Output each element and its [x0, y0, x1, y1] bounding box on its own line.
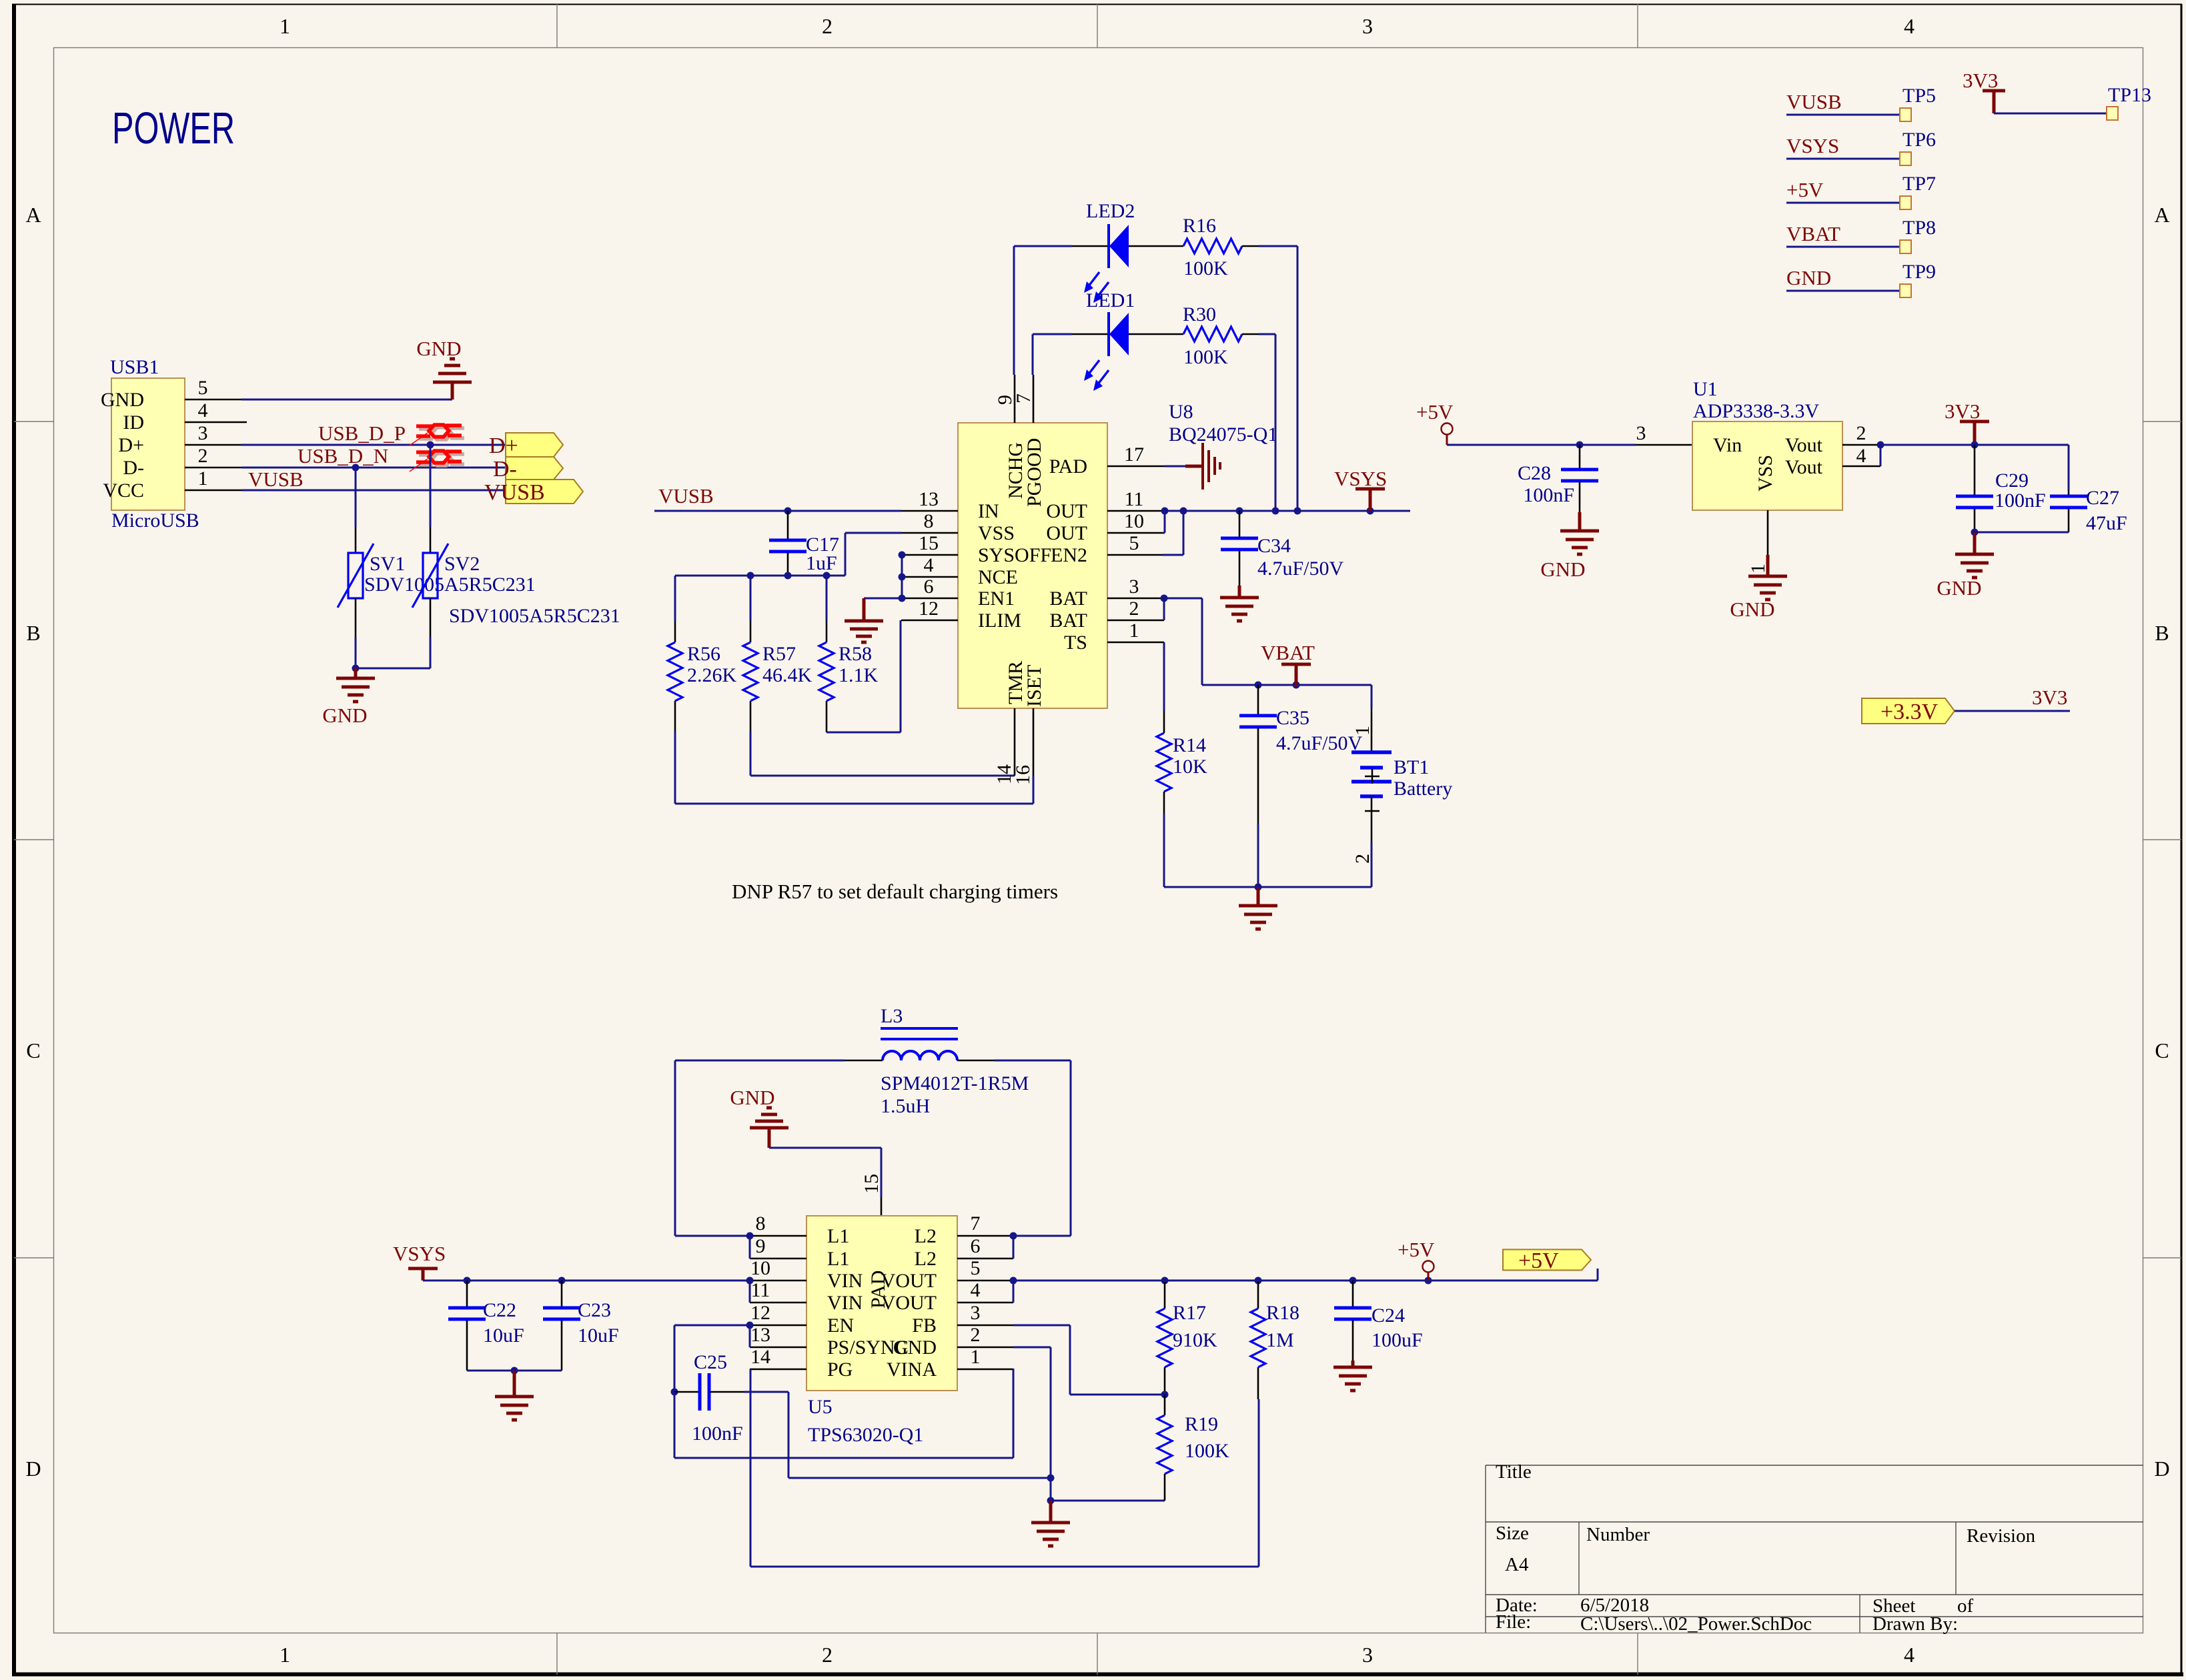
U1 pin 1 stub down	[1767, 510, 1769, 555]
U8 top pin 9 stub	[1014, 375, 1016, 423]
U5 left pin stubs	[750, 1235, 806, 1237]
svg-text:R18: R18	[1266, 1302, 1299, 1324]
svg-text:3V3: 3V3	[2032, 686, 2067, 709]
ground at U8 EN1 chain	[901, 555, 903, 598]
svg-text:3: 3	[1362, 14, 1373, 38]
svg-text:VUSB: VUSB	[658, 484, 714, 508]
wire +5V to U1 Vin	[1447, 444, 1636, 446]
svg-text:GND: GND	[1540, 558, 1585, 581]
svg-text:3: 3	[1129, 576, 1139, 598]
svg-text:1: 1	[971, 1346, 981, 1368]
svg-text:1: 1	[1129, 620, 1139, 642]
resistor R30	[1183, 327, 1242, 341]
junction R30 at rail	[1272, 508, 1279, 515]
resistor R58	[826, 576, 828, 621]
wire 3V3 to TP13	[1994, 113, 2107, 115]
svg-text:5: 5	[198, 377, 208, 399]
capacitor C27	[2068, 445, 2070, 490]
power port VSYS bottom	[408, 1269, 438, 1281]
BT1 pin stubs	[1371, 796, 1373, 842]
wire NCHG riser to LED2	[1013, 246, 1015, 375]
svg-text:C27: C27	[2086, 487, 2119, 509]
LED LED2	[1014, 245, 1072, 247]
USB1 pin 5 stub	[185, 399, 241, 401]
port flag VUSB	[506, 480, 583, 504]
wire R58 to ILIM	[827, 732, 901, 734]
svg-text:VINA: VINA	[887, 1359, 937, 1381]
svg-text:+5V: +5V	[1786, 178, 1824, 201]
capacitor C25	[674, 1391, 700, 1393]
svg-text:4: 4	[1904, 1643, 1915, 1667]
junction C35 top	[1255, 682, 1262, 689]
svg-text:OUT: OUT	[1046, 500, 1087, 522]
wire gnd to U5 pin15	[768, 1128, 771, 1148]
wire C22/C23 gnd rail	[467, 1370, 562, 1372]
wire D+ down to SV2	[430, 445, 432, 527]
svg-text:D-: D-	[123, 457, 144, 479]
svg-text:B: B	[2155, 621, 2169, 645]
L3 pin stubs	[845, 1060, 883, 1062]
resistor R14	[1163, 711, 1165, 733]
svg-text:R56: R56	[687, 643, 720, 665]
varistor SV2	[430, 527, 432, 553]
U1 pin 2 stub	[1842, 444, 1880, 446]
svg-text:A: A	[2154, 203, 2169, 227]
wire D- down to SV1	[355, 468, 357, 527]
junction gnd/C25	[1047, 1475, 1055, 1482]
svg-text:2.26K: 2.26K	[687, 664, 737, 686]
U8 right pin stubs	[1107, 466, 1165, 468]
svg-text:2: 2	[822, 14, 833, 38]
USB1 pin 1 stub	[185, 490, 241, 492]
svg-text:U1: U1	[1693, 378, 1718, 400]
svg-text:5: 5	[1129, 532, 1139, 554]
sheet outer border	[12, 4, 2182, 5]
svg-text:of: of	[1957, 1595, 1974, 1617]
svg-text:R57: R57	[762, 643, 796, 665]
wire VSYS rail bottom	[423, 1280, 750, 1282]
svg-text:C28: C28	[1518, 462, 1551, 484]
svg-text:D: D	[2154, 1457, 2169, 1481]
USB1 pin 4 stub (ID, n/c)	[185, 422, 247, 424]
svg-text:PGOOD: PGOOD	[1023, 438, 1045, 507]
junction C22	[464, 1277, 471, 1285]
svg-text:R17: R17	[1173, 1302, 1206, 1324]
junction R57 top	[747, 572, 754, 580]
power port +5V (circle)	[1442, 424, 1453, 435]
svg-text:TS: TS	[1064, 632, 1087, 654]
svg-text:POWER: POWER	[112, 103, 235, 153]
junction C23	[558, 1277, 566, 1285]
IC U1 body	[1692, 422, 1842, 510]
svg-text:15: 15	[861, 1174, 883, 1194]
svg-text:C24: C24	[1372, 1305, 1405, 1327]
junction D- to SV1	[352, 464, 360, 472]
junction R17 top	[1161, 1277, 1169, 1285]
capacitor C29	[1974, 445, 1976, 495]
zone dividers	[556, 4, 558, 47]
junction VIN pin10	[746, 1277, 754, 1285]
svg-text:IN: IN	[978, 500, 999, 522]
svg-text:4: 4	[924, 554, 934, 576]
junction VUSB/C17	[784, 508, 792, 515]
svg-text:17: 17	[1124, 444, 1144, 466]
U8 top pin 7 stub	[1033, 375, 1035, 423]
svg-text:VSYS: VSYS	[1786, 134, 1839, 157]
resistor R18	[1257, 1282, 1259, 1309]
svg-text:D: D	[25, 1457, 41, 1481]
U5 right pin stubs	[957, 1235, 1013, 1237]
svg-text:10K: 10K	[1173, 756, 1207, 778]
svg-text:6: 6	[971, 1235, 981, 1257]
wire BAT tie pin2	[1163, 598, 1165, 620]
svg-text:U8: U8	[1169, 401, 1193, 423]
wire EN pin13 tie	[749, 1325, 751, 1347]
power port 3V3 top right	[1983, 91, 2005, 113]
wire pin4 tie	[1880, 445, 1882, 466]
svg-text:1: 1	[198, 468, 208, 490]
svg-text:3: 3	[971, 1302, 981, 1324]
svg-text:ID: ID	[123, 411, 144, 434]
svg-text:L1: L1	[827, 1248, 849, 1270]
svg-text:D-: D-	[493, 457, 517, 482]
wire R14 to battery gnd rail	[1163, 814, 1165, 887]
svg-text:4.7uF/50V: 4.7uF/50V	[1257, 558, 1344, 580]
wire L1 net to L3	[675, 1060, 845, 1062]
U8 bottom pin 14 stub	[1014, 708, 1016, 776]
svg-text:D+: D+	[489, 434, 518, 458]
svg-text:L1: L1	[827, 1225, 849, 1247]
resistor R57	[750, 576, 752, 621]
battery BT1	[1371, 685, 1373, 708]
svg-text:100K: 100K	[1183, 346, 1228, 368]
ground under C29	[1955, 532, 1994, 578]
svg-text:3: 3	[1362, 1643, 1373, 1667]
port flag D+	[506, 433, 563, 457]
wire OUT pin10 tie	[1163, 532, 1165, 534]
svg-text:L2: L2	[915, 1248, 937, 1270]
svg-text:GND: GND	[1937, 576, 1981, 600]
svg-text:4: 4	[1856, 445, 1866, 467]
svg-text:B: B	[26, 621, 40, 645]
svg-text:VBAT: VBAT	[1261, 641, 1315, 664]
svg-text:C35: C35	[1276, 707, 1309, 729]
svg-text:OUT: OUT	[1046, 522, 1087, 544]
svg-text:GND: GND	[1786, 266, 1831, 289]
svg-text:VCC: VCC	[103, 480, 144, 502]
svg-text:VSYS: VSYS	[393, 1242, 446, 1265]
connector USB1 body	[111, 378, 185, 510]
wire pin16 to ISET rail	[1033, 776, 1035, 804]
svg-text:TP7: TP7	[1902, 173, 1936, 195]
LED LED1	[1033, 333, 1072, 335]
junction +5V port bottom	[1425, 1277, 1432, 1285]
wire battery gnd rail	[1164, 886, 1372, 888]
junction C29 top	[1971, 442, 1979, 449]
port flag +5V	[1503, 1250, 1591, 1271]
wire gnd to R19 bottom	[1051, 1500, 1165, 1502]
svg-text:11: 11	[1125, 488, 1144, 510]
svg-text:11: 11	[751, 1279, 770, 1301]
svg-text:L3: L3	[881, 1005, 903, 1027]
capacitor C23	[561, 1281, 563, 1307]
svg-text:1: 1	[1351, 726, 1374, 736]
svg-text:9: 9	[756, 1235, 766, 1257]
svg-text:BAT: BAT	[1049, 610, 1087, 632]
svg-text:C34: C34	[1257, 535, 1291, 557]
junction VSYS power	[1367, 508, 1374, 515]
ground under C22/C23	[495, 1371, 534, 1420]
power port 3V3 at U1	[1960, 422, 1989, 445]
svg-text:15: 15	[919, 532, 939, 554]
resistor R19	[1164, 1395, 1166, 1415]
wire EN net down to VINA rail	[674, 1392, 676, 1458]
svg-text:USB_D_P: USB_D_P	[318, 422, 406, 445]
junction C29 bottom	[1971, 529, 1979, 536]
wire VSS bus to resistors (y=863)	[675, 575, 845, 577]
ground above U5 (inverted)	[750, 1108, 788, 1128]
wire SV2 bottom to ground rail	[430, 637, 432, 668]
svg-text:R16: R16	[1183, 215, 1216, 237]
svg-text:16: 16	[1012, 765, 1034, 785]
svg-text:PAD: PAD	[867, 1271, 889, 1309]
svg-text:2: 2	[822, 1643, 833, 1667]
wire EN1 to gnd	[864, 598, 902, 600]
svg-text:SPM4012T-1R5M: SPM4012T-1R5M	[881, 1072, 1029, 1094]
ground under C28	[1560, 512, 1599, 554]
svg-text:1: 1	[280, 1643, 290, 1667]
wire bus to R56	[674, 576, 676, 621]
svg-text:TP13: TP13	[2108, 84, 2151, 106]
svg-text:C25: C25	[694, 1351, 727, 1373]
svg-text:MicroUSB: MicroUSB	[111, 510, 199, 532]
svg-text:SYSOFF: SYSOFF	[978, 544, 1051, 566]
wire GND pin2 down	[1013, 1347, 1051, 1349]
svg-text:EN: EN	[827, 1315, 854, 1337]
svg-text:BQ24075-Q1: BQ24075-Q1	[1169, 424, 1277, 446]
svg-text:4: 4	[198, 399, 208, 422]
svg-text:+5V: +5V	[1398, 1238, 1435, 1261]
svg-text:100K: 100K	[1183, 257, 1228, 279]
svg-text:Number: Number	[1586, 1524, 1650, 1545]
svg-text:+5V: +5V	[1518, 1248, 1559, 1273]
svg-text:2: 2	[1856, 422, 1866, 444]
svg-text:Title: Title	[1496, 1461, 1532, 1483]
wire SV ground rail	[356, 668, 430, 670]
wire +5V rail bottom	[1013, 1280, 1598, 1282]
svg-text:4.7uF/50V: 4.7uF/50V	[1276, 732, 1363, 754]
junction BAT pin3	[1161, 595, 1168, 602]
svg-text:Drawn By:: Drawn By:	[1872, 1613, 1958, 1635]
capacitor C35	[1257, 685, 1259, 714]
ground under battery rail	[1239, 887, 1277, 929]
wire +5V flag connector	[1597, 1269, 1599, 1281]
junction C24 top	[1349, 1277, 1357, 1285]
U8 bottom pin 16 stub	[1033, 708, 1035, 777]
U1 pin 4 stub	[1842, 466, 1880, 468]
junction caps gnd	[511, 1367, 518, 1375]
wire L1 pin9 tie	[749, 1236, 751, 1258]
svg-text:GND: GND	[893, 1337, 937, 1359]
svg-text:A4: A4	[1505, 1554, 1529, 1575]
wire PG down	[750, 1369, 752, 1567]
svg-text:1.1K: 1.1K	[839, 664, 879, 686]
capacitor C24	[1352, 1281, 1354, 1307]
wire EN2 tie	[1163, 554, 1183, 556]
junction C34	[1236, 508, 1243, 515]
svg-text:14: 14	[750, 1346, 770, 1368]
svg-text:100K: 100K	[1185, 1440, 1229, 1462]
svg-text:7: 7	[971, 1212, 981, 1234]
wire USB_D_N net	[241, 467, 506, 469]
svg-text:GND: GND	[101, 389, 144, 411]
svg-text:910K: 910K	[1173, 1329, 1217, 1351]
wire VIN pin11 tie	[749, 1281, 751, 1303]
svg-text:13: 13	[750, 1324, 770, 1346]
svg-text:10uF: 10uF	[483, 1325, 524, 1347]
svg-text:VOUT: VOUT	[881, 1270, 937, 1292]
junction L1 pin8	[746, 1232, 754, 1240]
svg-text:TP6: TP6	[1902, 129, 1936, 151]
junction EN1	[899, 595, 906, 602]
inductor L3	[881, 1028, 958, 1060]
svg-text:DNP R57 to set default chargin: DNP R57 to set default charging timers	[732, 880, 1058, 903]
svg-text:3V3: 3V3	[1963, 69, 1998, 92]
svg-text:Revision: Revision	[1967, 1525, 2036, 1547]
ground under C24	[1333, 1361, 1372, 1391]
svg-text:VSYS: VSYS	[1334, 467, 1387, 490]
svg-text:ISET: ISET	[1023, 665, 1045, 707]
test point TP13	[2107, 107, 2118, 120]
svg-text:1uF: 1uF	[806, 552, 837, 574]
svg-text:100nF: 100nF	[1995, 490, 2046, 512]
U1 pin 3 stub	[1636, 444, 1692, 446]
junction C28	[1576, 442, 1584, 449]
junction gnd/R19 rail	[1047, 1497, 1055, 1505]
U8 left pin stubs	[901, 510, 958, 512]
capacitor C22	[466, 1281, 468, 1307]
junction R17/R19/FB	[1161, 1391, 1169, 1399]
wire VBAT rail	[1202, 684, 1372, 686]
svg-text:1: 1	[1747, 564, 1769, 574]
svg-text:1.5uH: 1.5uH	[881, 1095, 930, 1117]
wire FB net	[1013, 1325, 1070, 1327]
wire VUSB from USB1 pin1	[241, 490, 506, 492]
svg-text:GND: GND	[1730, 598, 1774, 621]
svg-text:SDV1005A5R5C231: SDV1005A5R5C231	[449, 605, 620, 627]
svg-text:PG: PG	[827, 1359, 853, 1381]
svg-text:C: C	[2155, 1038, 2169, 1062]
svg-text:Vout: Vout	[1785, 456, 1823, 478]
wire L2 pin6 tie	[1013, 1236, 1015, 1258]
svg-text:R14: R14	[1173, 734, 1206, 756]
svg-text:VBAT: VBAT	[1786, 222, 1840, 245]
capacitor C28	[1579, 445, 1581, 468]
wire R57 to TMR	[750, 732, 752, 776]
svg-text:10: 10	[1124, 510, 1144, 532]
svg-text:PAD: PAD	[1049, 456, 1087, 478]
power port +5V bottom (circle)	[1423, 1261, 1434, 1273]
port flag D-	[506, 457, 563, 480]
varistor SV1	[355, 527, 357, 553]
svg-text:BT1: BT1	[1394, 756, 1429, 778]
junction VBAT power	[1293, 682, 1300, 689]
svg-text:SDV1005A5R5C231: SDV1005A5R5C231	[364, 574, 536, 596]
svg-text:FB: FB	[912, 1315, 937, 1337]
svg-text:USB_D_N: USB_D_N	[298, 444, 388, 468]
junction D+ to SV2	[427, 442, 434, 449]
svg-text:SV2: SV2	[444, 553, 480, 575]
wire VUSB to U8 pin13	[654, 510, 901, 512]
ground at U8 pin17 (sideways)	[1165, 466, 1185, 468]
svg-text:100uF: 100uF	[1372, 1329, 1423, 1351]
svg-text:2: 2	[971, 1324, 981, 1346]
svg-text:VOUT: VOUT	[881, 1292, 937, 1314]
wire VOUT pin4 tie	[1013, 1281, 1015, 1303]
wire R16 to VSYS rail	[1259, 245, 1297, 247]
IC U5 body	[806, 1216, 957, 1391]
junction OUT pin11	[1161, 508, 1169, 515]
wire L2 net to L3	[995, 1060, 1071, 1062]
svg-text:Vin: Vin	[1713, 434, 1742, 456]
wire VSS bus riser	[845, 533, 847, 576]
junction R58 top	[823, 572, 831, 580]
svg-text:SV1: SV1	[370, 553, 405, 575]
svg-text:TP8: TP8	[1902, 217, 1936, 239]
svg-text:46.4K: 46.4K	[762, 664, 812, 686]
svg-text:C: C	[26, 1038, 40, 1062]
ground under U1	[1748, 555, 1787, 600]
svg-text:13: 13	[919, 488, 939, 510]
svg-text:VSS: VSS	[978, 522, 1015, 544]
svg-text:5: 5	[971, 1257, 981, 1279]
junction U1 out	[1877, 442, 1884, 449]
port flag +3.3V	[1862, 698, 1955, 724]
svg-text:LED1: LED1	[1086, 289, 1135, 311]
junction battery gnd	[1255, 884, 1262, 891]
svg-text:3: 3	[198, 422, 208, 444]
svg-text:LED2: LED2	[1086, 200, 1135, 222]
title block frame	[1486, 1465, 2143, 1633]
wire R56 to ISET	[674, 732, 676, 804]
resistor R16	[1183, 239, 1242, 253]
svg-text:Size: Size	[1496, 1523, 1529, 1544]
svg-text:47uF: 47uF	[2086, 512, 2127, 534]
junction C25 left	[671, 1389, 678, 1396]
svg-text:100nF: 100nF	[692, 1423, 743, 1445]
svg-text:R30: R30	[1183, 303, 1216, 325]
svg-text:1M: 1M	[1266, 1329, 1294, 1351]
svg-text:D+: D+	[118, 434, 144, 456]
svg-text:100nF: 100nF	[1523, 484, 1574, 506]
wire VSYS rail	[1163, 510, 1410, 512]
junction VOUT pin5	[1010, 1277, 1017, 1285]
svg-text:BAT: BAT	[1049, 588, 1087, 610]
svg-text:VSS: VSS	[1754, 455, 1776, 492]
wire +3.3V to 3V3 label	[1955, 710, 2070, 712]
ground under SV1/SV2	[336, 668, 375, 702]
svg-text:A: A	[25, 203, 41, 227]
svg-text:TPS63020-Q1: TPS63020-Q1	[808, 1424, 923, 1446]
svg-text:C:\Users\..\02_Power.SchDoc: C:\Users\..\02_Power.SchDoc	[1580, 1613, 1812, 1635]
svg-text:R58: R58	[839, 643, 872, 665]
USB1 pin 2 stub	[185, 467, 241, 469]
wire caps bottom rail	[1975, 532, 2069, 534]
svg-text:3: 3	[1636, 422, 1646, 444]
svg-text:ADP3338-3.3V: ADP3338-3.3V	[1693, 400, 1820, 422]
svg-text:GND: GND	[322, 704, 367, 727]
capacitor C34	[1239, 511, 1241, 537]
